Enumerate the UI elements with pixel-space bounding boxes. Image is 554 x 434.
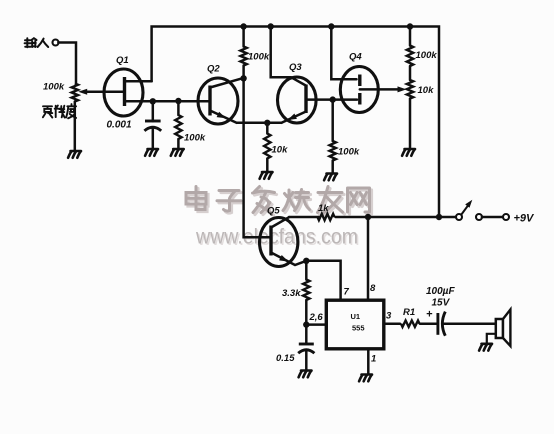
junction supply/pin8 [365, 214, 371, 220]
svg-text:R1: R1 [403, 307, 415, 318]
terminal input circle [53, 40, 59, 46]
svg-text:U1: U1 [351, 312, 361, 321]
svg-text:Q4: Q4 [349, 52, 362, 63]
resistor 3.3k [305, 261, 308, 280]
op-amp U1 555 timer [326, 300, 384, 349]
junction rail/100k [240, 23, 246, 29]
svg-text:Q1: Q1 [116, 55, 129, 66]
svg-text:1k: 1k [318, 203, 329, 214]
svg-text:3.3k: 3.3k [282, 288, 301, 299]
resistor R1 [401, 321, 420, 327]
svg-text:555: 555 [352, 324, 365, 333]
svg-text:2,6: 2,6 [309, 312, 324, 323]
wire input to pot [58, 43, 76, 84]
wire Q2 collector to Q5 base [244, 78, 271, 237]
junction node Q5 emitter [303, 258, 309, 264]
svg-text:100k: 100k [184, 133, 206, 144]
wire pin 3 output [384, 322, 400, 325]
svg-text:15V: 15V [432, 298, 451, 309]
svg-text:8: 8 [370, 283, 376, 294]
transistor Q1 (FET) [104, 69, 143, 116]
transistor Q3 [278, 77, 317, 123]
switch [456, 214, 462, 220]
resistor 100k (Q2 base) [177, 101, 180, 115]
ground speaker [479, 344, 492, 351]
transistor Q5 [260, 218, 298, 267]
wire Q4 gate [333, 98, 357, 101]
wiper arrow to Q1 gate [83, 91, 125, 94]
wire speaker to ground [487, 334, 496, 343]
wire Q4 source to pot [360, 88, 402, 91]
wire pin 8 [367, 217, 370, 300]
arrow wiper 10k pot [398, 86, 407, 92]
wire Q1 drain to rail [125, 80, 152, 83]
resistor 10k (emitter) [266, 123, 269, 134]
junction node emitter/10k [264, 120, 270, 126]
arrow Q3 emitter [288, 114, 297, 121]
watermark [188, 189, 372, 216]
svg-text:100k: 100k [43, 82, 65, 93]
junction node pins 2,6 [303, 321, 309, 327]
svg-text:7: 7 [344, 287, 350, 298]
svg-text:1: 1 [371, 354, 376, 365]
resistor 1k [318, 214, 335, 220]
wire pin 1 to ground [367, 349, 370, 374]
svg-text:+: + [426, 309, 433, 321]
ground pot [68, 151, 81, 158]
ground C 0.001 [145, 149, 158, 156]
transistor Q4 (FET) [340, 67, 378, 113]
resistor 100k (Q3 base) [331, 100, 334, 141]
potentiometer 100k 灵敏度 [72, 84, 78, 102]
svg-text:10k: 10k [272, 145, 289, 156]
potentiometer 10k [409, 66, 412, 80]
svg-text:Q2: Q2 [207, 64, 220, 75]
arrow Q5 emitter [279, 255, 288, 262]
ground 0.15 [299, 371, 312, 378]
wire to pins 2,6 [306, 323, 326, 326]
wire top supply rail [152, 27, 439, 218]
capacitor C 0.001 [152, 101, 155, 121]
ground 100k Q3 base [324, 174, 337, 181]
wire Q5 emitter to pin 7 [306, 261, 340, 300]
svg-text:0.15: 0.15 [276, 353, 295, 364]
svg-text:Q5: Q5 [267, 206, 280, 217]
junction rail/100k right [407, 23, 413, 29]
junction supply/rail [436, 214, 442, 220]
wire Q5 collector [271, 217, 289, 227]
transistor Q2 [198, 78, 238, 124]
wire Q5 emitter [271, 253, 306, 266]
junction node Q2 collector [240, 75, 246, 81]
svg-text:www.elecfans.com: www.elecfans.com [195, 226, 358, 249]
svg-text:3: 3 [386, 311, 392, 322]
svg-text:0.001: 0.001 [107, 120, 132, 131]
junction node Q3 base / Q4 gate [330, 96, 336, 102]
wire Q2 emitter [210, 111, 237, 123]
svg-text:100µF: 100µF [426, 286, 455, 297]
wire emitter line [237, 122, 282, 125]
speaker [496, 319, 503, 338]
svg-text:10k: 10k [418, 85, 435, 96]
ground right pot [402, 149, 415, 156]
svg-text:100k: 100k [338, 147, 360, 158]
svg-text:100k: 100k [248, 52, 270, 63]
node input terminal 输入 [25, 38, 49, 47]
junction node Q1 source [150, 98, 156, 104]
svg-text:Q3: Q3 [289, 62, 302, 73]
wire Q2 collector [210, 78, 244, 88]
wire Q3 base node [306, 98, 333, 101]
svg-text:+9V: +9V [514, 213, 536, 225]
junction rail/Q3 collector [268, 23, 274, 29]
ground pin 1 [359, 375, 372, 382]
svg-text:100k: 100k [416, 50, 438, 61]
junction rail/Q4 drain [328, 23, 334, 29]
label 灵敏度 [43, 104, 76, 118]
capacitor 0.15 [305, 325, 308, 344]
junction node Q2 base [175, 98, 181, 104]
ground 10k [260, 172, 273, 179]
arrow Q2 emitter [217, 112, 226, 119]
wire Q3 emitter [282, 112, 307, 123]
wire supply line [289, 216, 319, 219]
wire Q1 source node [125, 100, 211, 103]
ground 100k base [171, 149, 184, 156]
